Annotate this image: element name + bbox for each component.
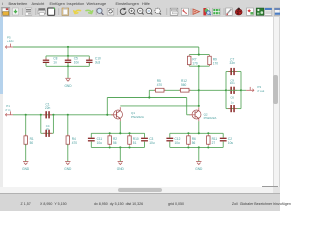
wire feedback node horizontal [149,89,199,91]
wire base bus horizontal [107,97,186,99]
label R6 56 [192,137,196,145]
node RF output label hardware [246,87,254,92]
ground symbol Q1 emitter [117,162,125,171]
label R5 470 [157,79,163,87]
wire Q2 emitter down [198,121,200,133]
junction Q2 emitter rail / R6 [187,132,189,134]
toolbar icon zoom selection [155,8,161,14]
toolbar icon edit symbols [226,8,232,15]
capacitor C5 [65,58,71,65]
wire C7 link [226,71,241,73]
toolbar icon zoom out [138,8,144,14]
toolbar icon open schematic [12,8,18,15]
toolbar icon undo [74,10,81,13]
junction input / C4 right rail [52,114,54,116]
wire output cap right rail [240,72,242,109]
junction bypass top bus [67,55,69,57]
wire collector node vertical [198,66,200,106]
svg-text:3u3: 3u3 [95,60,101,64]
toolbar icon symbol fields table [213,8,220,15]
svg-text:56: 56 [113,141,117,145]
label C2 10u [228,137,234,145]
junction collector node / output wire [198,89,200,91]
resistor R2 [108,134,112,145]
wire C3 top pin [144,133,146,137]
wire C10 bottom pin stub [88,63,90,66]
svg-text:10n: 10n [230,81,235,85]
ground symbol bypass bank [64,78,72,88]
wire Q2 base link [187,114,191,116]
wire C10 top pin stub [88,56,90,60]
svg-text:170: 170 [192,61,198,65]
toolbar icon footprint assign ladybug [235,8,242,15]
resistor R7 [187,55,191,66]
wire C5 top pin stub [67,56,69,60]
junction Q2 emitter rail center [198,132,200,134]
svg-text:10u: 10u [228,141,234,145]
svg-text:560: 560 [181,83,187,87]
toolbar icon run simulation arrow [193,9,200,14]
label C7 33n [230,57,236,65]
svg-text:170: 170 [213,61,219,65]
junction load top bus [198,54,200,56]
label Q1 reference and value [131,111,144,119]
wire Q2 emitter rail bottom [170,146,223,148]
wire C2 top pin [222,133,224,137]
wire load resistor bottom bus [189,65,209,67]
toolbar icon zoom fit [146,8,152,14]
svg-text:27: 27 [212,141,216,145]
capacitor C8 [43,58,49,65]
label C12 10u [175,137,181,145]
svg-text:GND: GND [117,167,125,171]
node RF input label hardware [5,111,13,116]
capacitor C3 electrolytic [141,138,148,142]
svg-text:GND: GND [64,84,72,88]
junction output wire / left rail [225,89,227,91]
wire load resistor top bus [189,54,209,56]
junction Q1 emitter rail center [119,132,121,134]
ground symbol R4 [64,162,72,171]
wire rail corner down to load resistors [198,47,200,55]
wire Q1 emitter rail bottom [91,146,144,148]
toolbar icon page settings [25,8,32,15]
junction Q1 emitter bottom center [119,146,121,148]
wire feedback corner down [148,90,150,97]
toolbar icon leave sheet [181,8,188,15]
wire output mid link [226,89,241,91]
label R7 170 [192,58,198,66]
label P3 rf out net name [257,85,264,93]
wire output cap left rail [225,72,227,109]
label C1 22n [45,103,51,110]
wire C11 bottom pin [90,142,92,148]
junction input / Q1 base [106,114,108,116]
svg-text:470: 470 [157,83,163,87]
label Q2 reference and value [204,112,217,120]
toolbar icon electrical rules check [203,8,211,15]
svg-text:22n: 22n [45,106,51,110]
capacitor C4 [43,130,52,137]
label C11 10u [97,137,103,145]
toolbar icon bill of materials [265,8,272,15]
wire Q1 emitter network to ground [119,147,121,161]
capacitor C12 electrolytic [166,138,173,142]
wire C4 right rail [52,115,54,134]
resistor R4 [66,134,70,145]
toolbar icon redraw view [120,8,126,15]
junction Q1 emitter bottom / R2 [109,146,111,148]
svg-text:PN2222A: PN2222A [131,115,144,119]
wire C11 top pin [90,133,92,137]
svg-text:C6: C6 [230,96,234,100]
wire Q2 emitter rail top [170,132,223,134]
wire Q2 emitter network to ground [198,147,200,161]
svg-text:rf out: rf out [257,89,264,93]
wire C4 left rail [40,115,42,134]
toolbar icon hierarchy navigator [170,8,178,15]
resistor R1 [24,134,28,145]
svg-text:56: 56 [192,141,196,145]
wire C6 link [226,108,241,110]
label R11 27 [212,137,218,145]
svg-text:10n: 10n [74,60,80,64]
capacitor C6 [228,105,237,112]
label R10 51 [133,137,139,145]
wire C8 top pin stub [45,56,47,60]
label C4 2n [46,124,50,131]
wire R1 top [25,115,27,136]
toolbar icon find and replace [107,8,114,15]
wire C5 bottom pin stub [67,63,69,66]
toolbar icon pcbnew board [256,8,264,15]
svg-text:1n: 1n [53,60,57,64]
wire R4 to ground [67,144,69,161]
wire input run [13,114,113,116]
junction input / R4 [67,114,69,116]
svg-text:1u: 1u [231,101,235,105]
svg-text:50: 50 [30,141,34,145]
wire Q1 emitter down [119,121,121,133]
wire junction to bypass bank top [67,47,69,56]
junction bypass bottom bus [67,65,69,67]
resistor R5 [154,88,166,92]
svg-text:10u: 10u [97,141,103,145]
label C5 10n [74,56,80,64]
toolbar icon new schematic [1,7,10,16]
junction Q1 emitter bottom / R10 [128,146,130,148]
capacitor C1 [43,111,52,118]
junction input / C4 left rail [40,114,42,116]
capacitor C2 electrolytic [220,138,227,142]
label C8 1n [53,56,57,64]
svg-text:10u: 10u [175,141,181,145]
label R2 56 [113,137,117,145]
label R12 560 [181,79,187,87]
toolbar icon print [38,8,46,15]
svg-text:2n: 2n [46,127,50,131]
wire C4 bottom link [41,132,54,134]
svg-text:GND: GND [22,167,30,171]
junction Q1 emitter rail / R2 [109,132,111,134]
toolbar icon paste frame [48,8,55,16]
wire output to label [241,89,246,91]
wire C12 bottom pin [169,142,171,148]
junction input / R1 [25,114,27,116]
svg-text:51: 51 [133,141,137,145]
svg-text:33n: 33n [230,61,236,65]
junction collectors common node [198,105,200,107]
junction load bottom bus [198,65,200,67]
svg-text:470: 470 [72,141,78,145]
label R9 170 [213,58,219,66]
wire bypass bank top bus [46,55,89,57]
resistor R11 [207,134,211,145]
junction Q1 emitter rail / R10 [128,132,130,134]
toolbar icon find [97,8,104,15]
svg-text:+12v: +12v [7,39,14,43]
junction base bus / feedback [148,96,150,98]
wire Q1 emitter rail top [91,132,144,134]
transistor Q1 [111,107,123,121]
wire base bus to Q2 base [186,98,188,115]
wire C8 bottom pin stub [45,63,47,66]
junction Q2 emitter rail / R11 [207,132,209,134]
svg-text:GND: GND [64,167,72,171]
wire base bus to Q1 base [106,98,108,115]
wire C2 bottom pin [222,142,224,148]
toolbar icon paste [62,7,69,15]
wire C12 top pin [169,133,171,137]
junction Q2 emitter bottom / R11 [207,146,209,148]
ground symbol R1 [22,162,30,171]
junction Q2 emitter bottom / R6 [187,146,189,148]
capacitor C11 electrolytic [88,138,95,142]
wire +12V rail [13,46,199,48]
svg-text:rf in: rf in [5,108,10,112]
capacitor C9 [228,87,237,94]
transistor Q2 [190,107,202,121]
label C6 1u [230,96,234,105]
svg-text:10u: 10u [149,141,155,145]
capacitor C7 [228,68,237,75]
resistor R12 [179,88,191,92]
capacitor C10 [86,58,92,65]
wire bypass bank to ground [67,66,69,78]
label R4 470 [72,137,78,145]
wire bypass bank bottom bus [46,65,89,67]
toolbar icon footprint editor [247,8,254,15]
label P5 +12v net name [7,35,14,43]
svg-text:GND: GND [195,167,203,171]
junction output wire / right rail [240,89,242,91]
junction +12V rail / bypass bank [67,46,69,48]
node +12V power input label hardware [5,44,13,49]
junction Q2 emitter bottom center [198,146,200,148]
toolbar icon redo [86,10,93,13]
label C9 10n [230,78,235,85]
ground symbol Q2 emitter [195,162,203,171]
label R1 50 [30,137,34,145]
toolbar icon assign footprints table [274,8,280,15]
resistor R6 [187,134,191,145]
wire output coupling run [199,89,226,91]
svg-text:PN2222A: PN2222A [204,116,217,120]
label P1 rf in net name [5,104,10,112]
wire R4 top [67,115,69,136]
wire R1 to ground [25,144,27,161]
wire Q1 collector to Q2 collector [120,105,199,107]
label C3 10u [149,137,155,145]
toolbar icon zoom in [129,8,135,14]
resistor R10 [128,134,132,145]
wire C3 bottom pin [144,142,146,148]
label C10 3u3 [95,56,101,64]
resistor R9 [208,55,212,66]
